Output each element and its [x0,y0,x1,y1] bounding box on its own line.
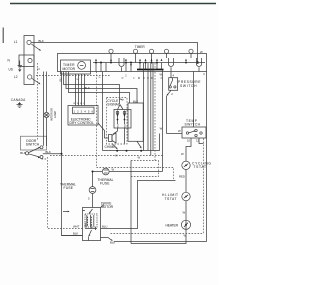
wire v206 [206,72,208,242]
svg-text:W: W [200,50,203,54]
wire L1 main feed [32,43,198,63]
svg-text:L2: L2 [14,75,18,79]
wire v150.8 [150,63,152,156]
wire v153 [152,63,154,151]
wire timer to relay box a [66,72,137,104]
motor left arrow [63,211,69,213]
svg-text:CANADA: CANADA [11,98,26,102]
bus under chime [103,134,160,151]
arrow from box [137,141,141,147]
wire v193 [193,72,195,128]
entry V wires [118,105,124,110]
svg-text:TIMER: TIMER [135,45,146,49]
wire BLK into motor [62,235,83,237]
wire hilimit to heater [185,201,187,220]
U contact drops [122,67,200,71]
svg-text:FUSE: FUSE [64,186,74,190]
timer bold bus [137,69,164,71]
terminal L1 [27,40,31,44]
wire neutral dashed vert [37,63,39,141]
svg-text:CHIME: CHIME [105,145,117,149]
timer motor circle [78,62,86,70]
svg-text:W: W [160,127,163,131]
dashed right then down [131,161,159,177]
left edge tick [2,28,4,44]
cycle signal dashed box [107,98,128,145]
wire fuse to motor [92,193,94,207]
svg-text:SWITCH: SWITCH [26,142,40,146]
wire v155 dashed [154,63,156,161]
junction chime bus right [140,150,142,152]
door wire right [43,153,62,155]
svg-text:R: R [122,77,125,79]
pressure switch feed [170,72,172,78]
svg-text:BLK: BLK [110,241,115,245]
wire L2 blade [32,79,40,85]
terminals 123456 [73,107,94,114]
svg-text:TSTAT: TSTAT [194,165,207,169]
terminal L2 [28,75,32,79]
svg-text:SWITCH: SWITCH [185,122,201,126]
pressure switch blade [167,90,171,95]
door switch box [21,136,47,150]
string bottom wires [113,128,125,144]
temp switch bottom wires [186,138,191,161]
motor bottom blade [89,230,92,236]
junction chime bus left [116,150,118,152]
timer U contact 3 [197,58,202,67]
svg-text:1 2 3 4 5 6: 1 2 3 4 5 6 [74,109,94,113]
timer terminal drops [111,53,191,62]
dashed horiz y160 [131,160,159,162]
svg-text:WHT: WHT [73,225,80,229]
svg-text:HEATER: HEATER [166,223,179,227]
wire drop BU [62,72,83,236]
wire cycling to hilimit [185,170,187,193]
svg-text:MOTOR: MOTOR [63,67,76,71]
top border line [10,3,216,5]
svg-text:W: W [183,211,186,215]
svg-text:DRY CONTROL: DRY CONTROL [70,121,95,125]
wire v143 [143,63,145,151]
svg-text:INTERIOR: INTERIOR [50,108,54,121]
svg-text:RED: RED [125,123,127,128]
temp switch lead [167,133,183,135]
timer wire labels row [99,75,164,80]
wire L1 blade [31,44,40,51]
timer terminal 3 [149,49,153,53]
svg-text:W: W [112,168,115,172]
wire drops to dry control [76,74,85,106]
motor right BLU wire [101,181,176,229]
wire timer to relay box b [69,72,130,104]
svg-text:BLK: BLK [73,232,78,236]
interior lamp [46,72,48,147]
wire v102 [102,72,104,151]
svg-text:FUSE: FUSE [100,181,110,185]
heater [181,220,190,229]
svg-text:W: W [181,152,184,156]
svg-text:BU: BU [59,78,63,82]
svg-text:L1: L1 [14,40,18,44]
motor centrifugal switch [89,209,93,214]
svg-text:Y: Y [76,78,80,80]
junction chime bus mid [126,150,128,152]
black box right of cycle [128,103,143,141]
svg-text:W: W [160,73,163,77]
chime speaker [109,135,113,142]
svg-text:W: W [138,156,141,160]
svg-text:AUX: AUX [90,223,93,228]
cycle pcb rect [114,110,131,129]
wire v148 [147,63,149,151]
timer terminal 2 [133,49,137,53]
wire down to door sw [43,72,45,146]
arrow from chime [112,144,117,149]
svg-text:BLK: BLK [85,86,90,90]
diode string 1 [116,111,119,114]
timer motor box [61,60,91,74]
electronic dry control box [68,106,98,126]
temp switch contacts [186,132,188,134]
timer contact drops [96,63,157,72]
timer contact arrows [95,59,187,67]
dashed horiz y155 [50,155,163,157]
timer terminal 4 [164,49,168,53]
svg-text:SWITCH: SWITCH [180,84,197,88]
terminal block [24,36,34,85]
timer contact bus [93,62,205,64]
terminal N [19,55,34,67]
svg-text:R: R [147,77,150,79]
door switch common [25,152,28,155]
wire from dry control to chime [98,123,109,138]
vertical from box corner [130,161,132,244]
svg-text:SIGNAL: SIGNAL [107,102,120,106]
svg-text:LAMP: LAMP [53,111,57,119]
bottom dashed wires [111,233,204,235]
thermal fuse upper [102,168,109,175]
motor winding labels [84,222,93,228]
timer U contact 2 [169,58,174,67]
wire v167 to temp lead [166,96,168,134]
svg-text:TSTAT: TSTAT [165,197,177,201]
timer contact dots [95,62,187,64]
motor windings [85,214,97,227]
svg-text:RED: RED [179,175,185,179]
svg-text:W: W [178,129,181,133]
pressure switch box [169,78,178,91]
door lower contact dashed down [42,158,48,160]
diode string 2 [123,111,126,114]
door switch blades [29,148,40,158]
dashed drop [96,72,98,168]
heater return wire [131,229,186,243]
timer box [58,54,207,72]
wire v162 [162,70,164,172]
svg-text:BLK: BLK [133,100,138,104]
hi-limit tstat [182,192,190,200]
dry control wire labels [74,103,86,105]
cycling tstat [182,161,190,169]
motor bottom right wire [101,238,113,241]
motor left tick [83,210,86,212]
svg-text:BLU: BLU [102,225,107,229]
svg-text:10: 10 [187,139,191,143]
wire WHT into motor [48,157,83,229]
wire timer to cycle signal apex [64,72,120,105]
timer terminal 1 [109,49,113,53]
dotted horiz y167 [97,168,174,181]
timer terminal 5 [189,49,193,53]
svg-text:BLK: BLK [46,150,51,154]
timer U contact 1 [119,58,124,67]
svg-text:BLK: BLK [20,151,25,155]
svg-text:MAIN: MAIN [84,222,87,228]
svg-text:BLK: BLK [39,39,44,43]
pressure switch contacts [169,86,171,88]
wire neutral dashed horiz [36,75,110,77]
drive motor box [83,208,101,241]
wire v203 dashed [203,139,205,234]
svg-text:US: US [9,68,13,72]
thermal fuse wire [93,172,163,187]
thermal fuse lower [89,187,96,194]
pressure switch blade internal [170,80,173,86]
